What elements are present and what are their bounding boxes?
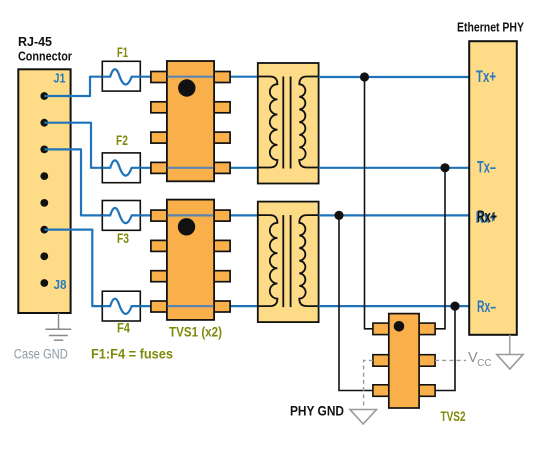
junction on Tx+ net	[360, 72, 369, 81]
pin 8 dot	[40, 279, 48, 287]
svg-text:TVS2: TVS2	[441, 409, 466, 424]
wire Tx- junction to TVS2 pin 6	[435, 168, 445, 329]
pin 5 dot	[40, 199, 48, 207]
wire fuse F4 to transformer T2	[140, 305, 257, 307]
fuse F1	[102, 61, 140, 91]
wire fuse F1 to transformer T1 (through TVS1)	[140, 76, 257, 78]
wire fuse F3 to transformer T2	[140, 214, 257, 216]
svg-text:F2: F2	[116, 132, 128, 148]
svg-text:J1: J1	[54, 71, 66, 86]
svg-text:Rx+: Rx+	[477, 208, 497, 226]
label: pin Rx+	[476, 208, 497, 227]
TVS1 package A pins	[151, 72, 230, 174]
svg-text:J8: J8	[54, 277, 67, 292]
pin 2 dot	[40, 119, 48, 127]
pin 7 dot	[40, 252, 48, 260]
wire Tx+ junction to TVS2 pin 1	[365, 77, 373, 329]
PHY ground symbol	[350, 410, 377, 425]
pin 1 dot	[40, 92, 48, 100]
wire transformer T2 to PHY Rx-	[319, 305, 470, 307]
wire J1 pin1 to fuse F1	[44, 77, 102, 96]
svg-text:F1:F4 = fuses: F1:F4 = fuses	[91, 347, 173, 362]
wire Rx+ junction to TVS2 pin 3	[339, 215, 373, 390]
label: VCC	[468, 350, 491, 369]
Ethernet PHY body	[469, 41, 517, 335]
TVS2 pins	[373, 323, 435, 396]
wire J1 pin3 to fuse F3	[44, 149, 102, 215]
svg-text:Rx–: Rx–	[477, 298, 496, 316]
svg-text:CC: CC	[477, 358, 491, 369]
wire over TVS1 A row4 (muted)	[168, 167, 214, 169]
svg-text:F4: F4	[117, 320, 130, 336]
fuse F3	[102, 201, 140, 231]
junction on Rx+ net	[334, 211, 343, 220]
RJ-45 connector body	[18, 69, 70, 313]
TVS1 package A body	[167, 61, 214, 181]
junction on Rx- net	[450, 302, 459, 311]
wire transformer T1 to PHY Tx+	[319, 76, 470, 78]
svg-text:Connector: Connector	[18, 49, 72, 64]
dashed wire TVS2 pin 2 to PHY GND	[364, 360, 373, 409]
TVS2 body	[389, 314, 419, 408]
TVS2 pin-1 dot	[394, 321, 405, 332]
VCC supply symbol	[497, 335, 523, 369]
wire over TVS1 B row4 (muted)	[168, 305, 214, 307]
wire transformer T2 to PHY Rx+	[319, 214, 470, 216]
TVS1 package B pin-1 dot	[178, 218, 195, 235]
wire Rx- junction to TVS2 pin 4	[435, 306, 455, 390]
svg-text:Case GND: Case GND	[14, 347, 68, 362]
dashed wire TVS2 pin 5 to VCC	[435, 359, 466, 361]
svg-text:Tx+: Tx+	[476, 68, 496, 86]
svg-text:F3: F3	[117, 230, 129, 246]
svg-text:TVS1 (x2): TVS1 (x2)	[169, 324, 222, 339]
pin 4 dot	[40, 172, 48, 180]
wire transformer T1 to PHY Tx-	[319, 167, 470, 169]
wire J1 pin6 to fuse F4	[44, 230, 102, 307]
TVS1 package A pin-1 dot	[178, 79, 195, 96]
fuse F2	[102, 153, 140, 183]
svg-text:PHY GND: PHY GND	[290, 404, 344, 419]
pin 3 dot	[40, 146, 48, 154]
svg-text:RJ-45: RJ-45	[18, 34, 52, 49]
TVS1 package B pins	[151, 210, 230, 312]
wire J1 pin2 to fuse F2	[44, 123, 102, 168]
TVS1 package B body	[167, 200, 214, 320]
svg-text:Tx–: Tx–	[477, 158, 496, 176]
wire fuse F2 to transformer T1	[140, 167, 257, 169]
label: RJ-45 Connector	[18, 34, 72, 64]
svg-text:F1: F1	[117, 44, 128, 60]
transformer T1	[258, 63, 319, 184]
junction on Tx- net	[440, 163, 449, 172]
transformer T2	[258, 202, 319, 323]
wire over TVS1 B row1 (muted)	[168, 214, 214, 216]
pin 6 dot	[40, 226, 48, 234]
wire over TVS1 A row1 (muted)	[168, 76, 214, 78]
svg-text:Ethernet PHY: Ethernet PHY	[457, 20, 525, 34]
fuse F4	[102, 291, 140, 321]
case ground symbol	[45, 313, 71, 340]
